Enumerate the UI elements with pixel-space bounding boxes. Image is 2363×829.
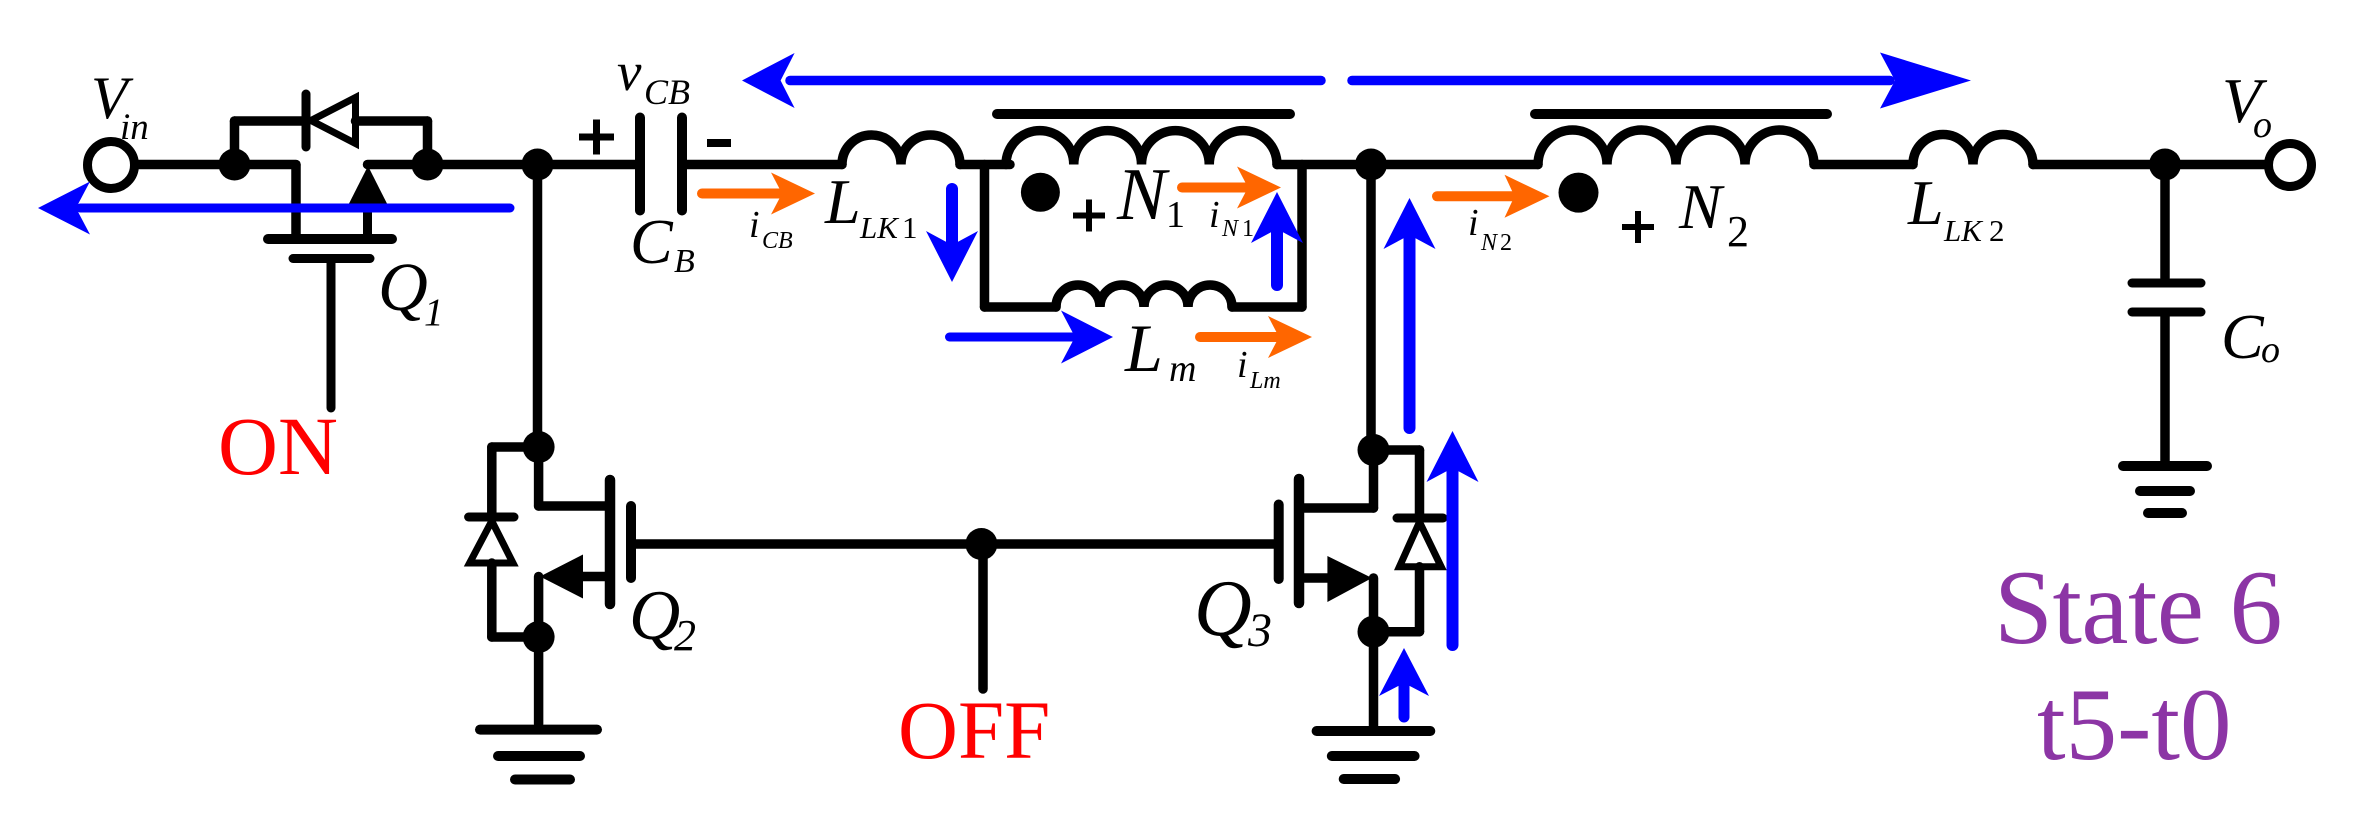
svg-text:m: m [1169, 348, 1196, 390]
svg-text:L: L [1907, 167, 1944, 238]
svg-text:in: in [120, 107, 149, 148]
svg-text:Q: Q [1194, 565, 1252, 653]
svg-text:CB: CB [644, 72, 690, 112]
svg-text:3: 3 [1247, 604, 1272, 657]
svg-text:B: B [674, 243, 695, 280]
svg-text:ON: ON [218, 400, 338, 492]
svg-text:t5-t0: t5-t0 [2037, 668, 2232, 782]
svg-text:2: 2 [1727, 207, 1749, 256]
svg-text:2: 2 [1989, 213, 2005, 248]
svg-text:N: N [1480, 230, 1499, 256]
svg-text:State 6: State 6 [1994, 549, 2282, 666]
svg-text:i: i [1468, 202, 1479, 244]
svg-text:C: C [630, 206, 674, 277]
svg-text:1: 1 [1166, 194, 1185, 236]
svg-text:i: i [749, 204, 760, 246]
svg-text:1: 1 [902, 210, 918, 245]
svg-text:Lm: Lm [1249, 368, 1281, 394]
svg-text:i: i [1209, 194, 1220, 236]
svg-text:L: L [1124, 310, 1163, 386]
svg-text:2: 2 [1500, 230, 1512, 256]
svg-text:C: C [2221, 301, 2265, 372]
svg-text:N: N [1116, 154, 1170, 236]
svg-text:Q: Q [629, 577, 680, 655]
svg-text:N: N [1221, 216, 1240, 242]
svg-text:LK: LK [859, 210, 900, 245]
svg-text:N: N [1678, 171, 1725, 242]
svg-text:OFF: OFF [898, 684, 1050, 776]
svg-text:Q: Q [378, 249, 428, 325]
svg-text:CB: CB [762, 228, 793, 254]
svg-text:L: L [824, 166, 861, 237]
svg-text:o: o [2261, 329, 2280, 371]
svg-text:o: o [2253, 104, 2272, 146]
svg-text:1: 1 [424, 291, 444, 334]
svg-text:v: v [617, 41, 642, 102]
svg-text:i: i [1237, 344, 1248, 386]
svg-text:1: 1 [1242, 216, 1254, 242]
svg-text:LK: LK [1943, 213, 1984, 248]
svg-text:2: 2 [674, 611, 696, 660]
